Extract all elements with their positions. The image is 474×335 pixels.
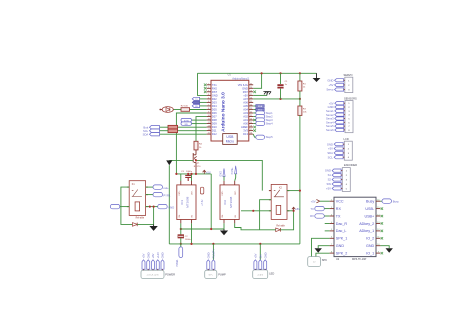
svg-text:IO_1: IO_1: [366, 251, 374, 255]
svg-text:+5V: +5V: [329, 83, 334, 87]
wire A0x pin to Step3 flag: [253, 119, 256, 121]
svg-text:GND: GND: [242, 86, 248, 90]
svg-text:Step2: Step2: [266, 114, 274, 118]
svg-text:PUMP: PUMP: [218, 272, 226, 276]
svg-text:+5V: +5V: [142, 253, 146, 258]
connector SENSORS pin flag 7: [335, 125, 344, 128]
diode D1 relay K1 snubber: [133, 223, 138, 227]
wire C1 top drop: [280, 73, 282, 84]
svg-text:Sens5: Sens5: [326, 124, 334, 128]
node junction C3 rail left: [175, 173, 177, 175]
wire SPK_1 to speaker connector: [312, 238, 330, 256]
svg-text:SPK_2: SPK_2: [336, 251, 347, 255]
no-connect X on U2 right pin 13: [381, 222, 383, 224]
svg-text:D12: D12: [212, 132, 217, 136]
svg-text:8: 8: [208, 108, 209, 110]
wire K2 snubber loop right segment: [280, 211, 293, 230]
wire +5V rail from A07 pin to R1/R3 column: [253, 98, 300, 100]
connector LED pin flag 2: [259, 260, 262, 269]
svg-text:24: 24: [250, 104, 252, 106]
node junction bottom rail IC1 out: [190, 243, 192, 245]
net tag PYR1 oval: [153, 192, 163, 196]
wire C2 to bottom rail: [180, 238, 182, 244]
svg-text:RST: RST: [212, 90, 218, 94]
node junction K1 coil right: [149, 206, 151, 208]
U2 left pin names: [336, 200, 348, 256]
U2 right pin names: [359, 200, 375, 256]
wire vertical from ground arrow down to bottom rail: [168, 165, 170, 244]
svg-text:D07: D07: [212, 115, 217, 119]
relay K2 pin stubs: [269, 191, 289, 211]
wire right GND pin to top rail: [253, 73, 261, 88]
svg-text:GND: GND: [146, 252, 150, 258]
svg-text:13: 13: [208, 126, 210, 128]
wire D13 pin to Step5 flag: [253, 134, 256, 137]
svg-text:+5V: +5V: [326, 187, 331, 191]
no-connect X on U2 right pin 9: [381, 252, 383, 254]
net flag PUMP above IC2 pin2: [235, 166, 237, 174]
svg-text:IN-: IN-: [235, 215, 237, 218]
net tag Step3: [256, 118, 265, 122]
wire +5V flag to VCC pin: [320, 200, 330, 202]
svg-text:17: 17: [250, 129, 252, 131]
wire IC2 pin2 to PUMP flag: [235, 174, 236, 181]
wire gate rail y160 left part with ground arrow: [169, 159, 193, 161]
wire +5V C3 rail: [176, 173, 211, 175]
svg-text:Busy: Busy: [393, 199, 400, 203]
connector ENCODER pin flag 2: [332, 173, 341, 176]
svg-text:21: 21: [250, 115, 252, 117]
node junction C3 rail Q1: [195, 173, 197, 175]
svg-text:USB+: USB+: [364, 214, 374, 218]
U2 left pin stubs: [330, 201, 334, 253]
svg-text:RST: RST: [243, 90, 249, 94]
wire R1 bottom drop: [299, 91, 301, 99]
wire K1 coil row right to GND tag: [146, 206, 158, 208]
op-amp U1 Arduino Nano 3.0 body: [211, 80, 249, 141]
svg-text:Butt: Butt: [143, 125, 148, 129]
wire K2 coil row left: [241, 210, 271, 212]
svg-text:+5V: +5V: [328, 147, 333, 151]
svg-text:S2: S2: [328, 178, 332, 182]
wire A0x pin to Step1 flag: [253, 112, 256, 114]
bus tag SDA on A05: [256, 105, 264, 108]
connector SENSORS pin flag 3: [335, 109, 344, 112]
connector LCD pin numbers: [348, 144, 350, 159]
svg-text:SW: SW: [327, 182, 332, 186]
svg-text:USB-: USB-: [365, 207, 375, 211]
svg-text:+5 G +9 +12 G: +5 G +9 +12 G: [147, 275, 160, 277]
svg-text:29: 29: [250, 87, 252, 89]
svg-text:PUMP+: PUMP+: [212, 249, 216, 259]
wire K2 coil row right to +5V: [287, 210, 294, 212]
svg-text:OUT+: OUT+: [179, 190, 181, 196]
svg-text:2: 2: [208, 87, 209, 89]
wire K1 coil row left to input tag: [120, 206, 129, 208]
no-connect X right pin A01: [253, 119, 256, 122]
wire A0x pin to Step4 flag: [253, 123, 256, 125]
svg-text:D08: D08: [212, 118, 217, 122]
svg-text:LCD: LCD: [344, 137, 349, 141]
capacitor C2: [178, 235, 184, 237]
svg-text:Step3: Step3: [266, 118, 274, 122]
svg-text:+5V: +5V: [329, 101, 334, 105]
svg-text:GND: GND: [328, 105, 334, 109]
net tag out+ oval: [153, 185, 163, 189]
svg-text:Din: Din: [258, 254, 262, 259]
node junction rail1 IC1 pin: [180, 228, 182, 230]
svg-text:D02: D02: [212, 97, 217, 101]
ground symbol U2 left: [315, 248, 322, 252]
capacitor C3: [185, 174, 191, 181]
svg-text:A06: A06: [243, 101, 248, 105]
svg-text:Sens3: Sens3: [326, 117, 334, 121]
connector PUMP body: [205, 270, 217, 278]
wire LED left stub and pad: [160, 109, 162, 111]
svg-text:+5 D G: +5 D G: [257, 274, 263, 276]
svg-text:MP3-TF-16P: MP3-TF-16P: [352, 258, 367, 261]
wire pump drop: [212, 244, 214, 260]
connector ENCODER body: [342, 168, 350, 192]
resistor R2: [181, 108, 190, 112]
svg-text:A01: A01: [243, 118, 248, 122]
svg-text:SENSORS: SENSORS: [344, 96, 357, 100]
wire R2 to LED D3: [174, 109, 182, 111]
wire R6 to SCL flag: [160, 130, 169, 132]
net tag Step5: [256, 135, 265, 139]
svg-text:D09: D09: [212, 122, 217, 126]
net flag Butt: [150, 126, 160, 129]
svg-text:16: 16: [250, 133, 252, 135]
svg-text:IC1: IC1: [180, 200, 184, 205]
svg-text:7: 7: [208, 104, 209, 106]
IC1 pin names: [179, 190, 194, 218]
net tag oval K1 coil input: [110, 204, 120, 208]
connector ENCODER pin flag 1: [332, 169, 341, 172]
svg-text:ADkey_1: ADkey_1: [359, 229, 374, 233]
svg-text:+12V: +12V: [156, 252, 160, 259]
wire +5V pin to earth symbol: [253, 94, 267, 96]
svg-text:14: 14: [208, 129, 210, 131]
connector LCD pin flag 1: [334, 143, 343, 146]
capacitor C1: [277, 84, 283, 86]
IC2 pin names: [222, 190, 237, 218]
connector SENSORS body: [345, 101, 353, 133]
pin tag POW1: [180, 244, 182, 247]
svg-text:ADkey_2: ADkey_2: [359, 222, 374, 226]
wire RX tag to TX pin: [324, 215, 329, 217]
svg-text:27: 27: [250, 94, 252, 96]
connector ENCODER pin flag 3: [332, 178, 341, 181]
no-connect X on left pin 2: [204, 87, 207, 90]
ground symbol K1: [149, 226, 157, 231]
net tag Step2: [256, 114, 265, 118]
svg-text:SDA: SDA: [327, 151, 333, 155]
wire IC1 pin2 drop from rail: [191, 174, 193, 181]
svg-text:SDA: SDA: [258, 105, 263, 108]
svg-text:Micro: Micro: [226, 140, 234, 144]
svg-text:IO_2: IO_2: [366, 237, 374, 241]
connector SENSORS pin flag 8: [335, 128, 344, 131]
svg-text:GND: GND: [219, 171, 222, 177]
svg-text:A00: A00: [243, 122, 248, 126]
svg-text:+5V: +5V: [243, 94, 248, 98]
svg-text:+9V: +9V: [151, 253, 155, 258]
wire A05 pin to SDA bus tag: [253, 105, 256, 107]
wire U2 GND left to ground: [318, 246, 329, 249]
net tag SQW on D08: [181, 118, 192, 121]
svg-text:A02: A02: [243, 115, 248, 119]
svg-text:22: 22: [250, 112, 252, 114]
net flag tag on D03 (filled): [192, 101, 199, 104]
Arduino left pin stubs rows 1-15: [207, 85, 211, 134]
svg-text:Arduino Nano 3.0: Arduino Nano 3.0: [220, 92, 226, 132]
svg-text:Dac_R: Dac_R: [336, 222, 348, 226]
no-connect X on U2 right pin 12: [381, 230, 383, 232]
svg-text:ArduinoNano3: ArduinoNano3: [232, 77, 249, 81]
svg-text:A03: A03: [243, 111, 248, 115]
connector PUMP pin flag 1: [207, 260, 210, 269]
svg-text:A07: A07: [243, 97, 248, 101]
connector LCD pin flag 2: [334, 147, 343, 150]
svg-text:+7.5v: +7.5v: [201, 199, 204, 206]
no-connect X on U2 right pin 15: [381, 207, 383, 209]
no-connect X on left pin 1: [204, 84, 207, 87]
svg-text:D05: D05: [212, 108, 217, 112]
Arduino right pin stubs rows 16-30: [249, 85, 253, 134]
connector POWER pin flag 4: [156, 260, 159, 269]
svg-text:out+: out+: [163, 186, 169, 190]
connector SPK body: [308, 257, 321, 267]
svg-text:23: 23: [250, 108, 252, 110]
net flag tag on D04: [192, 104, 199, 107]
svg-text:IN-: IN-: [192, 215, 194, 218]
svg-text:6: 6: [208, 101, 209, 103]
svg-text:AREF: AREF: [241, 125, 248, 129]
connector SENSORS pin flag 2: [335, 105, 344, 108]
IC2 pin stubs: [224, 181, 235, 224]
IC1 pin stubs: [181, 181, 192, 224]
svg-text:GND: GND: [168, 206, 174, 210]
svg-text:SPK_1: SPK_1: [336, 237, 347, 241]
svg-text:D06: D06: [212, 111, 217, 115]
wire SPK_2 to speaker connector: [316, 253, 330, 256]
wire U2 GND right to ground: [380, 246, 389, 249]
svg-text:9: 9: [208, 112, 209, 114]
connector LED pin flag 1: [254, 260, 257, 269]
svg-text:MT3608: MT3608: [229, 196, 233, 207]
svg-text:GND: GND: [327, 142, 333, 146]
node junction +5V rail / R1 R3: [299, 98, 301, 100]
svg-text:26: 26: [250, 97, 252, 99]
svg-text:+5V: +5V: [311, 199, 316, 203]
LED D3 indicator diode: [162, 107, 173, 113]
svg-text:D03: D03: [212, 101, 217, 105]
wire IC2 pin1 to GND flag: [223, 176, 225, 181]
svg-text:A04: A04: [243, 108, 248, 112]
relay K1 switch lever: [132, 190, 142, 197]
svg-text:+5V: +5V: [254, 253, 258, 258]
resistor R1: [298, 81, 302, 91]
node junction rail to 191.5 drop: [190, 173, 192, 175]
svg-text:D13: D13: [243, 132, 248, 136]
node junction bottom rail led drop: [259, 243, 261, 245]
resistor R5: [168, 125, 178, 128]
svg-text:25: 25: [250, 101, 252, 103]
connector PUMP pin flag 2: [212, 260, 215, 269]
svg-text:SCL: SCL: [143, 129, 149, 133]
wire Dac_R stub: [325, 222, 330, 224]
svg-text:Sens6: Sens6: [326, 128, 334, 132]
ground arrow at right end of top rail: [316, 73, 318, 78]
wire IC1 pin3 column down through C2: [180, 229, 182, 235]
bus tag SCL on A04: [256, 108, 264, 111]
wire R5 to Butt flag: [160, 126, 169, 128]
svg-text:Sens1: Sens1: [326, 109, 334, 113]
svg-text:POW1: POW1: [176, 259, 179, 267]
svg-text:30: 30: [250, 83, 252, 85]
connector ENCODER pin flag 4: [332, 182, 341, 185]
svg-text:SDA: SDA: [143, 132, 149, 136]
connector SENSORS pin flag 5: [335, 117, 344, 120]
svg-text:PYR1: PYR1: [163, 194, 171, 198]
svg-text:11: 11: [208, 119, 210, 121]
no-connect marks left pins TX1 RX0 RST: [0, 0, 1, 1]
wire TX tag to RX pin: [324, 208, 329, 210]
connector SENSORS pin flag 4: [335, 113, 344, 116]
net tag Step1: [256, 111, 265, 115]
svg-text:19: 19: [250, 122, 252, 124]
connector SERVO body: [345, 77, 353, 92]
svg-text:3: 3: [208, 90, 209, 92]
wire rail1 IC grounds: [181, 228, 224, 230]
Arduino right pin numbers 30-16: [250, 83, 252, 134]
svg-text:MT3608: MT3608: [186, 196, 190, 207]
node junction right rail K2: [299, 190, 301, 192]
svg-text:USB: USB: [226, 135, 234, 139]
IC IC1 MT3608 body: [177, 185, 196, 220]
supply tag +7.5v between ICs: [200, 187, 203, 194]
svg-text:GND: GND: [325, 169, 331, 173]
wire right rail corner up: [299, 243, 301, 245]
relay K1 body: [129, 181, 145, 216]
svg-text:Servo: Servo: [326, 88, 334, 92]
net tag Busy oval: [382, 199, 392, 203]
U2 left pin numbers: [331, 200, 333, 254]
wire K1 contact row1 left loop down to diode: [121, 187, 133, 224]
connector POWER body: [141, 270, 164, 278]
resistor R3: [298, 106, 302, 115]
node junction Q1 on rail: [195, 159, 197, 161]
node junction K1 coil / ground stem: [153, 206, 155, 208]
svg-text:R2 100: R2 100: [181, 106, 189, 108]
svg-text:IC2: IC2: [223, 200, 227, 205]
net tag GND oval K1: [158, 204, 168, 208]
svg-text:3V3: 3V3: [243, 129, 248, 133]
svg-text:1000u: 1000u: [185, 239, 192, 241]
wire K1 ground stem vertical: [153, 207, 155, 225]
svg-text:PUM+: PUM+: [231, 167, 234, 175]
connector ENCODER pin flag 5: [332, 187, 341, 190]
IC IC2 MT3608 body: [220, 185, 239, 220]
svg-text:OUT-: OUT-: [192, 190, 194, 195]
no-connect X right pin AREF: [253, 126, 256, 129]
node junction top rail / GND drop: [261, 72, 263, 74]
svg-text:GND: GND: [327, 78, 333, 82]
net flag SDA: [150, 133, 160, 136]
wire K1 contact row2 right to PYR1 tag: [146, 194, 153, 196]
node junction rail1 mid drop: [210, 228, 212, 230]
svg-text:Rel-able: Rel-able: [136, 218, 145, 220]
wire diode D1 to ground stem: [137, 223, 153, 225]
connector SERVO pin flag 3: [335, 88, 344, 91]
wire top rail from Arduino to down-arrow: [198, 72, 317, 74]
svg-text:RX: RX: [310, 214, 314, 218]
net flag tag on D02: [192, 97, 199, 100]
node junction +5V rail / C1: [279, 98, 281, 100]
power flag +5V at K2: [292, 207, 295, 211]
svg-text:Sens4: Sens4: [326, 120, 334, 124]
svg-text:12: 12: [208, 122, 210, 124]
svg-text:LED: LED: [269, 272, 274, 276]
svg-text:D04: D04: [212, 104, 217, 108]
U2 right pin stubs: [376, 201, 380, 253]
svg-text:Dac_L: Dac_L: [336, 229, 347, 233]
IC U2 MP3-TF-16P body: [334, 197, 376, 256]
svg-text:32K: 32K: [184, 124, 188, 126]
relay K1 pin stubs: [127, 187, 148, 207]
connector SERVO pin numbers: [348, 80, 350, 91]
svg-text:15: 15: [208, 133, 210, 135]
wire gate rail y160 right part to K2: [196, 160, 262, 190]
svg-text:Step4: Step4: [266, 122, 274, 126]
wire K2 contact row1 right to right rail: [287, 190, 300, 192]
svg-text:VIN 6-9v: VIN 6-9v: [238, 83, 249, 87]
svg-text:GND: GND: [212, 94, 218, 98]
Arduino left pin names: [212, 83, 218, 136]
svg-text:G P+: G P+: [209, 275, 213, 277]
svg-text:D11: D11: [212, 129, 217, 133]
Arduino right pin names: [238, 83, 249, 136]
U2 right pin numbers: [377, 200, 380, 254]
connector POWER pin flag 2: [147, 260, 150, 269]
wire long vertical right rail R3 down to bottom rail: [299, 115, 301, 244]
node junction K2 coil left: [252, 210, 254, 212]
net tag RX oval at U2 TX: [315, 214, 325, 218]
svg-text:GND: GND: [161, 252, 165, 258]
connector LED pin flag 3: [264, 260, 267, 269]
resistor R4: [194, 141, 198, 150]
svg-text:OUT-: OUT-: [235, 190, 237, 195]
connector SENSORS pin flag 1: [335, 102, 344, 105]
svg-text:4: 4: [208, 94, 209, 96]
no-connect X right pin 3V3: [253, 129, 256, 132]
connector LCD pin flag 4: [334, 156, 343, 159]
wire IC1 pin3 down to rail1: [180, 223, 182, 229]
no-connect X on U2 right pin 14: [381, 215, 383, 217]
svg-text:RX0: RX0: [212, 86, 218, 90]
node junction bottom rail POW1: [180, 243, 182, 245]
connector SERVO pin flag 2: [335, 83, 344, 86]
ground arrow down at left end of rail: [166, 160, 172, 165]
svg-text:S1: S1: [328, 173, 332, 177]
no-connect X on left pin 3: [204, 91, 207, 94]
net tag Step4: [256, 121, 265, 125]
node junction C3 rail cap: [187, 173, 189, 175]
connector LED body: [253, 270, 268, 279]
svg-text:TX: TX: [310, 207, 314, 211]
net flag SCL: [150, 129, 160, 132]
